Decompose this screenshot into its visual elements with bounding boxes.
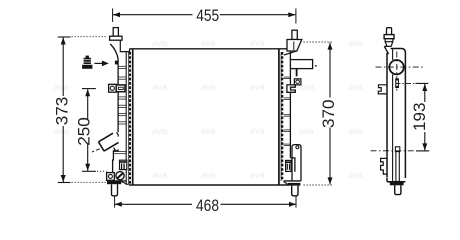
- svg-text:ava.: ava.: [250, 82, 267, 92]
- svg-text:ava.: ava.: [152, 82, 169, 92]
- svg-text:370: 370: [319, 100, 338, 129]
- svg-text:ava.: ava.: [250, 126, 267, 136]
- svg-text:468: 468: [196, 196, 219, 215]
- svg-text:ava.: ava.: [299, 82, 316, 92]
- svg-text:ava.: ava.: [348, 126, 365, 136]
- svg-text:ava.: ava.: [201, 126, 218, 136]
- svg-text:ava.: ava.: [348, 82, 365, 92]
- svg-text:ava.: ava.: [348, 38, 365, 48]
- svg-text:ava.: ava.: [250, 170, 267, 180]
- svg-text:ava.: ava.: [54, 126, 71, 136]
- svg-text:ava.: ava.: [54, 82, 71, 92]
- svg-text:250: 250: [75, 117, 94, 146]
- svg-text:ava.: ava.: [348, 170, 365, 180]
- svg-text:ava.: ava.: [152, 126, 169, 136]
- svg-text:ava.: ava.: [250, 38, 267, 48]
- svg-text:ava.: ava.: [201, 170, 218, 180]
- svg-text:193: 193: [410, 103, 429, 132]
- svg-text:ava.: ava.: [299, 126, 316, 136]
- svg-text:373: 373: [52, 97, 71, 126]
- svg-text:ava.: ava.: [152, 170, 169, 180]
- svg-text:455: 455: [196, 6, 219, 25]
- svg-text:ava.: ava.: [152, 38, 169, 48]
- svg-text:ava.: ava.: [201, 38, 218, 48]
- svg-text:ava.: ava.: [201, 82, 218, 92]
